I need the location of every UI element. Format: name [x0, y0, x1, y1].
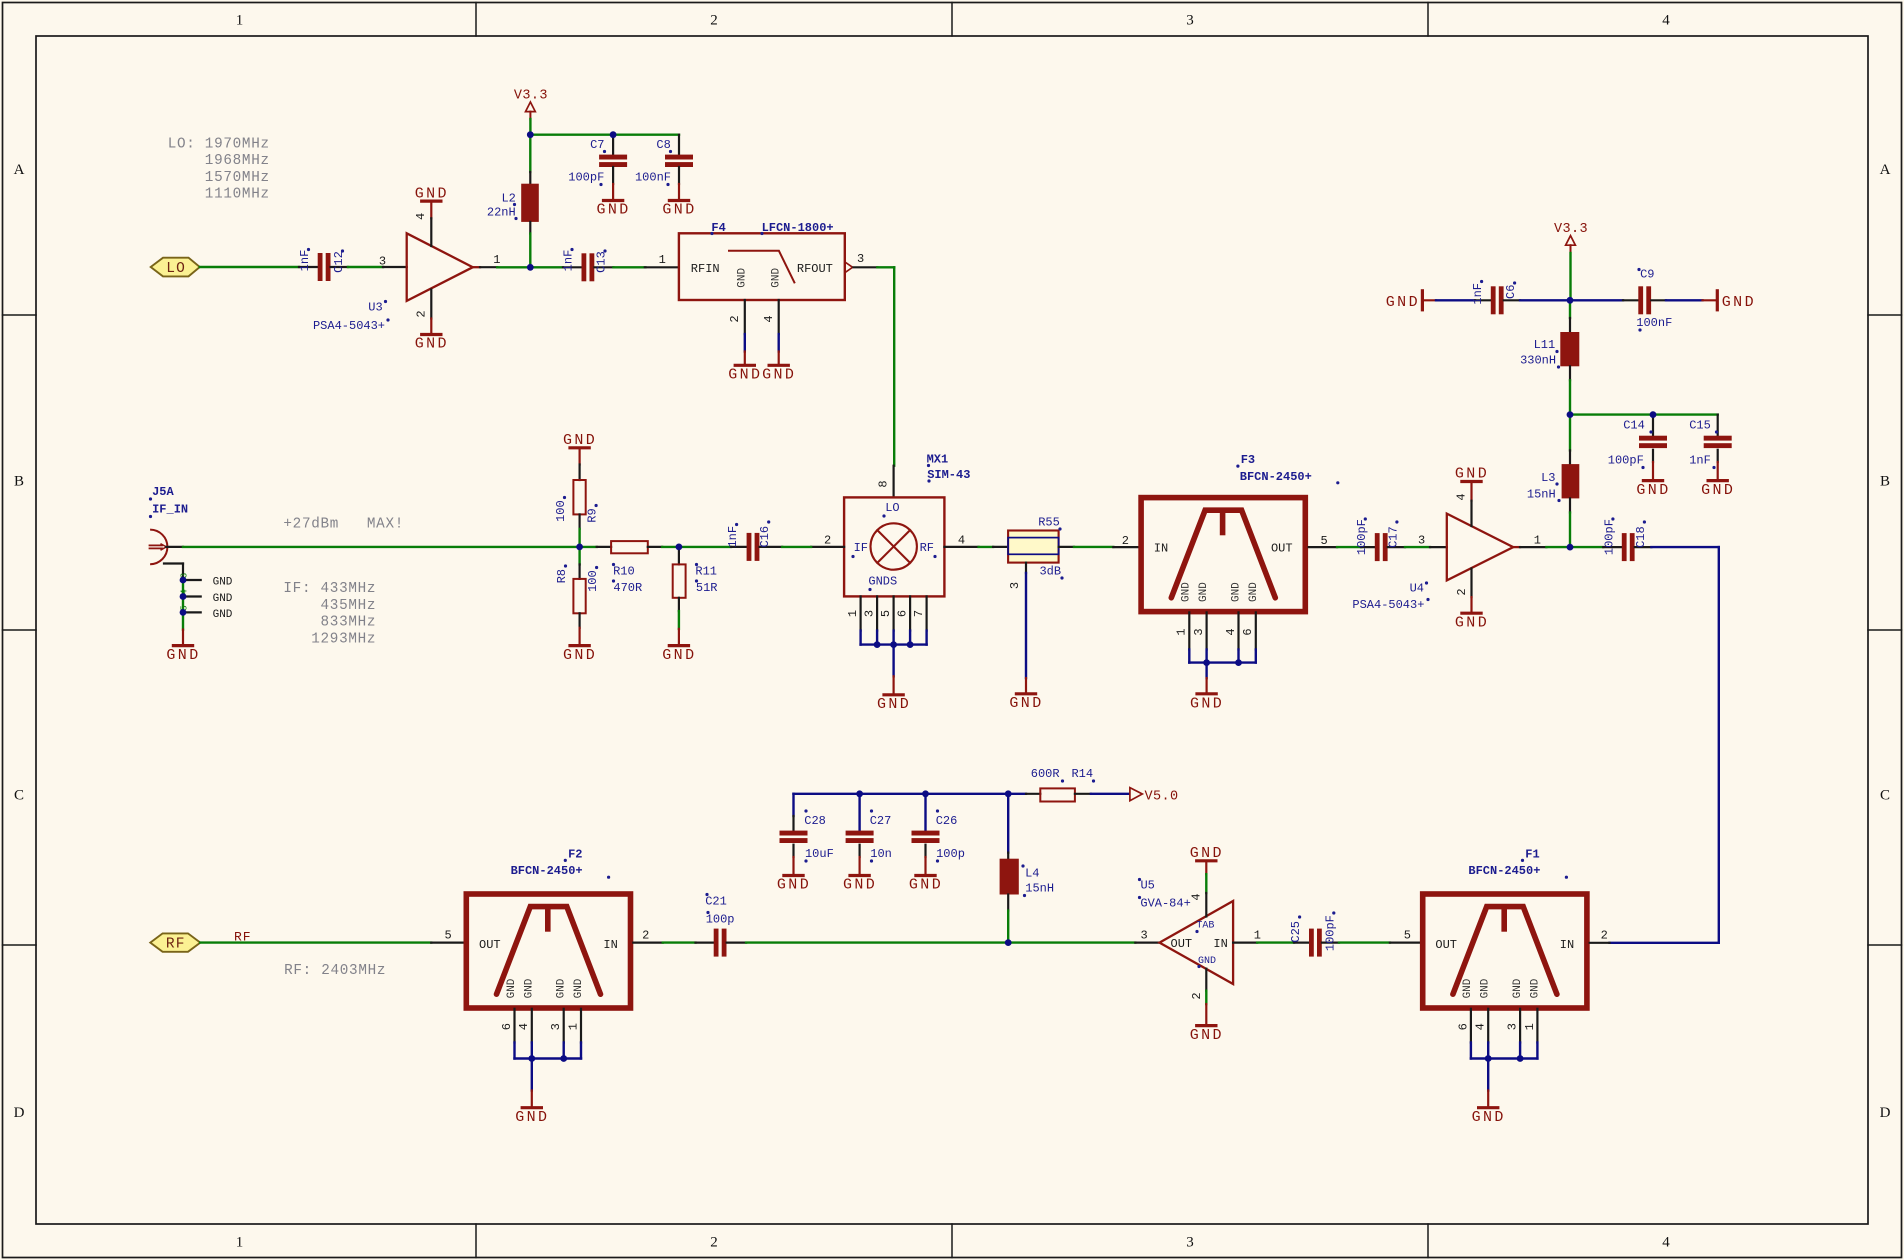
svg-text:1nF: 1nF	[1471, 283, 1485, 305]
svg-text:GND: GND	[515, 1109, 549, 1126]
resistor R10 470R	[597, 541, 663, 595]
wire C17 to U4	[1405, 546, 1430, 548]
svg-text:C25: C25	[1289, 921, 1303, 943]
svg-text:5: 5	[879, 610, 893, 617]
svg-text:3: 3	[1186, 13, 1194, 29]
svg-text:C17: C17	[1386, 526, 1400, 548]
R55 pin 3 to ground	[1008, 563, 1026, 679]
svg-text:A: A	[1880, 162, 1891, 178]
U4 pin 3	[1418, 534, 1447, 548]
svg-text:1: 1	[1523, 1023, 1537, 1030]
wire F2 to C21	[663, 941, 696, 943]
svg-text:3: 3	[549, 1023, 563, 1030]
svg-text:7: 7	[912, 610, 926, 617]
U4 output pin 1	[1513, 534, 1546, 548]
wire U5 to C25	[1257, 941, 1294, 943]
resistor R8 100	[555, 547, 600, 628]
svg-text:GND: GND	[662, 202, 696, 219]
capacitor C12 1nF	[298, 248, 348, 281]
svg-text:IF: IF	[854, 541, 868, 555]
svg-text:435MHz: 435MHz	[283, 598, 376, 614]
hierarchical port RF	[150, 933, 200, 952]
svg-text:LO: LO	[885, 501, 899, 515]
mixer MX1 pin 8 (LO)	[876, 466, 893, 498]
svg-text:4: 4	[414, 213, 428, 220]
ground below F3	[1190, 678, 1224, 712]
U5 pin 1 (IN)	[1233, 928, 1261, 942]
svg-text:BFCN-2450+: BFCN-2450+	[511, 864, 583, 878]
wire node to C18	[1570, 546, 1603, 548]
power flag V3.3 (right)	[1554, 222, 1588, 253]
svg-text:10uF: 10uF	[805, 847, 834, 861]
hierarchical port LO	[151, 258, 200, 277]
svg-text:100pF: 100pF	[1608, 454, 1644, 468]
svg-text:C21: C21	[705, 895, 727, 909]
svg-text:330nH: 330nH	[1520, 353, 1556, 367]
svg-text:BFCN-2450+: BFCN-2450+	[1468, 864, 1540, 878]
svg-text:IN: IN	[603, 938, 617, 952]
U3 pin 3	[379, 255, 407, 269]
svg-text:V5.0: V5.0	[1145, 789, 1179, 804]
svg-text:3: 3	[1192, 628, 1206, 635]
svg-text:1nF: 1nF	[1689, 454, 1711, 468]
svg-text:3: 3	[1008, 582, 1022, 589]
svg-text:GND: GND	[1198, 956, 1216, 967]
svg-text:GND: GND	[1455, 614, 1489, 631]
capacitor C8 100nF	[635, 135, 693, 186]
wire V3.3 down to rail	[1569, 253, 1571, 300]
wire RF port to F2	[200, 941, 431, 943]
mixer ground pins 1,3,5,6,7	[846, 596, 927, 630]
svg-text:C8: C8	[656, 138, 670, 152]
svg-text:F3: F3	[1241, 453, 1255, 467]
junction at U4 output	[1567, 544, 1574, 551]
ground below C15	[1701, 462, 1735, 499]
ground below C8	[662, 184, 696, 219]
wire C18 to F1 (right vertical run)	[1610, 547, 1719, 943]
svg-text:RF: RF	[920, 541, 934, 555]
svg-text:GND: GND	[1190, 695, 1224, 712]
svg-text:C18: C18	[1634, 526, 1648, 548]
power flag V3.3 (left)	[514, 89, 548, 120]
svg-text:3: 3	[863, 610, 877, 617]
svg-text:GND: GND	[1529, 978, 1541, 998]
svg-text:GND: GND	[737, 268, 749, 288]
svg-text:1: 1	[1175, 628, 1189, 635]
svg-text:U5: U5	[1140, 879, 1154, 893]
svg-text:4: 4	[1662, 1235, 1670, 1251]
svg-text:1nF: 1nF	[726, 526, 740, 548]
junction at L11 bottom	[1567, 411, 1574, 418]
F4 pin 3 output	[845, 252, 877, 272]
inductor L4 15nH	[1000, 794, 1055, 943]
svg-text:100p: 100p	[936, 847, 965, 861]
svg-text:1110MHz: 1110MHz	[168, 187, 270, 203]
F4 pin 1	[645, 253, 679, 267]
svg-text:GND: GND	[213, 577, 233, 589]
mixer pin 4 (RF)	[944, 534, 978, 548]
svg-text:2: 2	[1122, 534, 1129, 548]
junction V3.3 rail at L2	[527, 131, 534, 138]
mixer pin 2 (IF)	[811, 534, 844, 548]
svg-text:GND: GND	[1009, 695, 1043, 712]
svg-text:10n: 10n	[870, 847, 892, 861]
svg-text:R8: R8	[555, 569, 569, 583]
power flag V5.0	[1130, 788, 1179, 805]
svg-text:C13: C13	[595, 251, 609, 273]
svg-text:GND: GND	[762, 367, 796, 384]
filter F1 BFCN-2450+ body	[1423, 847, 1587, 1008]
capacitor C13 1nF	[562, 248, 614, 281]
svg-text:A: A	[14, 162, 25, 178]
svg-text:IN: IN	[1154, 541, 1168, 555]
F2 pin 2 output	[633, 928, 663, 942]
wire V3.3 to rail	[529, 119, 531, 135]
svg-text:V3.3: V3.3	[514, 89, 548, 104]
attenuator R55 3dB	[993, 516, 1074, 580]
svg-text:RF: 2403MHz: RF: 2403MHz	[284, 963, 386, 979]
J5A ground pin wires	[180, 564, 233, 630]
svg-text:100: 100	[554, 500, 568, 522]
wire rail node to C9	[1570, 299, 1623, 301]
F4 pin 4 to ground	[762, 300, 796, 384]
svg-text:+27dBm MAX!: +27dBm MAX!	[283, 517, 404, 533]
wire R55 to F3	[1074, 546, 1113, 548]
svg-text:TAB: TAB	[1196, 920, 1214, 931]
svg-text:5: 5	[1404, 928, 1411, 942]
capacitor C26 100p	[912, 794, 965, 863]
svg-text:1nF: 1nF	[298, 250, 312, 272]
svg-text:GND: GND	[1701, 482, 1735, 499]
svg-text:GND: GND	[213, 609, 233, 621]
ground below F1	[1472, 1091, 1506, 1126]
svg-text:GVA-84+: GVA-84+	[1140, 896, 1190, 910]
U5 pin 2 with GND below	[1190, 969, 1224, 1044]
svg-text:R11: R11	[695, 564, 717, 578]
svg-text:V3.3: V3.3	[1554, 222, 1588, 237]
F4 pin 2 to ground	[728, 300, 762, 384]
ground below C14	[1636, 462, 1670, 499]
svg-text:1570MHz: 1570MHz	[168, 170, 270, 186]
svg-text:GND: GND	[1190, 845, 1224, 862]
svg-text:4: 4	[762, 315, 776, 322]
svg-text:100nF: 100nF	[1636, 316, 1672, 330]
capacitor C27 10n	[846, 794, 892, 863]
J5A signal pin	[166, 546, 183, 548]
svg-text:L4: L4	[1025, 866, 1039, 880]
ground below R8	[563, 628, 597, 664]
wire node to U5	[1008, 941, 1135, 943]
svg-text:100nF: 100nF	[635, 171, 671, 185]
U4 pin 4 with GND above	[1454, 466, 1489, 526]
text note IF frequencies	[283, 581, 376, 647]
svg-text:IF_IN: IF_IN	[152, 503, 188, 517]
capacitor C15 1nF	[1689, 415, 1732, 470]
wire F3 to C17	[1337, 546, 1361, 548]
wire F4 output to mixer LO	[877, 267, 894, 465]
svg-text:GND: GND	[909, 877, 943, 894]
svg-text:SIM-43: SIM-43	[927, 468, 970, 482]
connector J5A IF_IN	[149, 485, 188, 564]
wire node to C16	[679, 546, 731, 548]
U3 pin 4 with GND above	[414, 185, 449, 246]
resistor R9 100	[554, 432, 600, 547]
U3 output pin 1	[473, 253, 501, 267]
junction V3.3 rail	[1567, 297, 1574, 304]
F1 pin 2 (IN)	[1590, 928, 1610, 943]
wire C13 to F4	[613, 266, 645, 268]
wire C6 to rail node	[1520, 299, 1570, 301]
wire V5 bias bus	[794, 794, 1009, 816]
svg-text:U4: U4	[1410, 582, 1424, 596]
svg-text:OUT: OUT	[1171, 937, 1193, 951]
svg-text:RFOUT: RFOUT	[797, 262, 833, 276]
svg-text:2: 2	[1601, 928, 1608, 942]
junction at L4 top	[1005, 790, 1012, 797]
svg-text:F4: F4	[711, 221, 725, 235]
svg-text:GND: GND	[771, 268, 783, 288]
svg-text:1: 1	[1254, 928, 1261, 942]
svg-text:2: 2	[710, 13, 718, 29]
svg-text:GND: GND	[415, 185, 449, 202]
svg-text:GND: GND	[556, 978, 568, 998]
svg-text:GND: GND	[415, 336, 449, 353]
ground left of C6	[1386, 291, 1436, 311]
svg-text:100: 100	[586, 570, 600, 592]
svg-text:LO: 1970MHz: LO: 1970MHz	[168, 136, 270, 152]
svg-text:2: 2	[710, 1235, 718, 1251]
ground below mixer	[877, 676, 911, 713]
svg-text:3: 3	[1140, 928, 1147, 942]
filter F2 BFCN-2450+ body	[466, 847, 630, 1008]
svg-text:F2: F2	[568, 847, 582, 861]
svg-text:470R: 470R	[613, 581, 642, 595]
wire V3.3 rail horizontal	[530, 133, 679, 135]
svg-text:IF: 433MHz: IF: 433MHz	[283, 581, 376, 597]
svg-text:LFCN-1800+: LFCN-1800+	[762, 221, 834, 235]
svg-text:GNDS: GNDS	[868, 575, 897, 589]
svg-text:1: 1	[566, 1023, 580, 1030]
svg-text:GND: GND	[563, 432, 597, 449]
U4 pin 2 with GND below	[1455, 569, 1489, 632]
svg-text:GND: GND	[1190, 1027, 1224, 1044]
svg-text:100pF: 100pF	[1355, 519, 1369, 555]
svg-text:GND: GND	[1248, 582, 1260, 602]
svg-text:PSA4-5043+: PSA4-5043+	[313, 319, 385, 333]
svg-text:RFIN: RFIN	[691, 262, 720, 276]
svg-text:GND: GND	[596, 202, 630, 219]
svg-text:GND: GND	[573, 978, 585, 998]
svg-text:C15: C15	[1689, 419, 1711, 433]
svg-text:6: 6	[1241, 628, 1255, 635]
svg-text:2: 2	[1190, 992, 1204, 999]
mixer ground bus wires	[861, 631, 927, 677]
svg-text:2: 2	[1455, 588, 1469, 595]
inductor L3 15nH	[1527, 415, 1579, 547]
svg-text:15nH: 15nH	[1025, 881, 1054, 895]
svg-text:OUT: OUT	[1435, 938, 1457, 952]
svg-text:GND: GND	[213, 593, 233, 605]
text note +27dBm MAX	[283, 517, 404, 533]
svg-text:4: 4	[1474, 1023, 1488, 1030]
svg-text:GND: GND	[1455, 466, 1489, 483]
svg-text:GND: GND	[563, 647, 597, 664]
ground below R55	[1009, 678, 1043, 712]
svg-text:C: C	[14, 788, 24, 804]
U5 pin 3 (OUT)	[1135, 928, 1159, 942]
capacitor C17 100pF	[1355, 517, 1405, 561]
svg-text:IN: IN	[1560, 938, 1574, 952]
junction at R9/R8	[576, 544, 583, 551]
filter F3 BFCN-2450+ body	[1141, 453, 1339, 611]
svg-text:GND: GND	[166, 647, 200, 664]
svg-text:4: 4	[517, 1023, 531, 1030]
capacitor C7 100pF	[568, 135, 627, 186]
svg-text:GND: GND	[728, 367, 762, 384]
svg-text:6: 6	[896, 610, 910, 617]
junction at R11	[676, 544, 683, 551]
junction at C7	[610, 131, 617, 138]
svg-text:1: 1	[659, 253, 666, 267]
svg-text:4: 4	[958, 534, 965, 548]
svg-text:C27: C27	[870, 814, 892, 828]
svg-text:GND: GND	[523, 978, 535, 998]
junction at C14	[1650, 411, 1657, 418]
svg-text:3: 3	[857, 252, 864, 266]
svg-text:5: 5	[444, 928, 451, 942]
svg-text:1: 1	[1534, 534, 1541, 548]
wire C12 to U3 pin 3	[348, 266, 383, 268]
ground below J5A	[166, 630, 200, 664]
svg-text:C12: C12	[332, 251, 346, 273]
wire C16 to mixer IF	[782, 546, 811, 548]
wire U3 output to node	[497, 266, 530, 268]
F1 pin 5	[1390, 928, 1420, 942]
F2 ground pins 6,4,3,1	[500, 1009, 581, 1091]
svg-text:C7: C7	[590, 138, 604, 152]
svg-text:6: 6	[500, 1023, 514, 1030]
svg-text:1: 1	[493, 253, 500, 267]
svg-text:GND: GND	[1480, 978, 1492, 998]
amplifier U3 PSA4-5043+	[313, 233, 473, 333]
svg-text:OUT: OUT	[479, 938, 501, 952]
svg-text:R14: R14	[1071, 767, 1093, 781]
svg-text:100p: 100p	[706, 913, 735, 927]
mixer MX1 SIM-43 body	[844, 453, 970, 597]
svg-text:OUT: OUT	[1271, 541, 1293, 555]
svg-text:R55: R55	[1038, 516, 1060, 530]
capacitor C18 100pF	[1602, 517, 1651, 561]
svg-text:L11: L11	[1534, 338, 1556, 352]
resistor R14 600R	[1008, 767, 1095, 802]
junction at C26 top	[922, 790, 929, 797]
svg-text:2: 2	[415, 310, 429, 317]
svg-text:8: 8	[876, 480, 890, 487]
wire LO port to C12	[200, 266, 299, 268]
svg-text:2: 2	[642, 928, 649, 942]
wire C21 to L4 node	[746, 941, 1008, 943]
capacitor C6 1nF	[1471, 280, 1520, 314]
svg-text:2: 2	[728, 315, 742, 322]
svg-text:GND: GND	[1181, 582, 1193, 602]
svg-text:GND: GND	[1472, 1109, 1506, 1126]
svg-text:C: C	[1880, 788, 1890, 804]
ground below F2	[515, 1091, 549, 1126]
svg-text:MX1: MX1	[927, 453, 949, 467]
svg-text:4: 4	[1662, 13, 1670, 29]
svg-text:C16: C16	[758, 526, 772, 548]
svg-text:GND: GND	[506, 978, 518, 998]
F3 pin 5 output	[1309, 534, 1338, 548]
svg-text:BFCN-2450+: BFCN-2450+	[1240, 470, 1312, 484]
svg-text:B: B	[1880, 474, 1890, 490]
svg-text:833MHz: 833MHz	[283, 615, 376, 631]
svg-text:GND: GND	[662, 647, 696, 664]
svg-text:GND: GND	[1386, 294, 1420, 311]
svg-text:LO: LO	[166, 261, 186, 277]
svg-text:100pF: 100pF	[1602, 519, 1616, 555]
svg-text:GND: GND	[1636, 482, 1670, 499]
svg-text:B: B	[14, 474, 24, 490]
svg-text:GND: GND	[1512, 978, 1524, 998]
wire R14 to V5.0	[1091, 793, 1129, 795]
filter F4 LFCN-1800+ body	[679, 221, 845, 300]
text note RF frequency	[284, 963, 386, 979]
svg-text:J5A: J5A	[152, 485, 174, 499]
inductor L2 22nH	[487, 135, 539, 268]
svg-text:1968MHz: 1968MHz	[168, 153, 270, 169]
svg-text:D: D	[14, 1105, 25, 1121]
capacitor C21 100p	[696, 893, 747, 957]
svg-text:3: 3	[1506, 1023, 1520, 1030]
svg-text:PSA4-5043+: PSA4-5043+	[1352, 598, 1424, 612]
capacitor C16 1nF	[726, 520, 782, 561]
svg-text:RF: RF	[166, 937, 186, 953]
wire node to C13	[530, 266, 563, 268]
svg-text:GND: GND	[1198, 582, 1210, 602]
svg-text:22nH: 22nH	[487, 205, 516, 219]
U3 pin 2 with GND below	[415, 290, 449, 353]
svg-text:GND: GND	[1722, 294, 1756, 311]
svg-text:F1: F1	[1525, 847, 1539, 861]
svg-text:C26: C26	[936, 814, 958, 828]
svg-text:L3: L3	[1541, 471, 1555, 485]
ground below C7	[596, 184, 630, 219]
ground below C28	[777, 857, 811, 894]
svg-text:3: 3	[1186, 1235, 1194, 1251]
wire GND to C6	[1436, 299, 1475, 301]
F3 pin 2 (IN)	[1113, 534, 1138, 548]
wire node to C14/C15	[1570, 413, 1718, 415]
inductor L11 330nH	[1520, 300, 1579, 414]
svg-text:2: 2	[824, 534, 831, 548]
junction at L4 bottom	[1005, 939, 1012, 946]
svg-text:C9: C9	[1640, 268, 1654, 282]
svg-text:IN: IN	[1213, 937, 1227, 951]
junction at C27 top	[856, 790, 863, 797]
svg-text:15nH: 15nH	[1527, 487, 1556, 501]
svg-text:GND: GND	[777, 877, 811, 894]
capacitor C28 10uF	[780, 809, 834, 862]
amplifier U4 PSA4-5043+	[1352, 514, 1513, 612]
wire C25 to F1	[1339, 941, 1390, 943]
amplifier U5 GVA-84+	[1138, 878, 1233, 984]
svg-text:R10: R10	[613, 564, 635, 578]
F1 ground pins 6,4,3,1	[1456, 1009, 1537, 1091]
svg-text:R9: R9	[586, 508, 600, 522]
svg-text:1293MHz: 1293MHz	[283, 631, 376, 647]
svg-text:600R: 600R	[1031, 767, 1060, 781]
